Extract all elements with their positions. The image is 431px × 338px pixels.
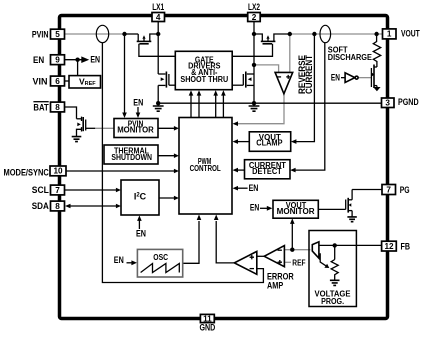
svg-text:2: 2	[252, 13, 257, 22]
svg-text:FB: FB	[401, 242, 411, 253]
svg-text:DISCHARGE: DISCHARGE	[328, 53, 373, 62]
svg-text:LX2: LX2	[248, 2, 260, 12]
svg-text:PG: PG	[400, 185, 410, 196]
svg-text:6: 6	[55, 77, 60, 86]
svg-text:I2C: I2C	[134, 192, 147, 202]
svg-text:GND: GND	[200, 322, 216, 333]
svg-text:MONITOR: MONITOR	[117, 126, 154, 135]
svg-text:CURRENT: CURRENT	[304, 55, 314, 94]
svg-text:EN: EN	[136, 229, 146, 239]
svg-text:5: 5	[55, 30, 60, 39]
svg-text:MODE/SYNC: MODE/SYNC	[4, 168, 49, 179]
svg-text:EN: EN	[249, 183, 259, 193]
svg-text:SCL: SCL	[32, 185, 49, 196]
svg-text:7: 7	[55, 186, 60, 195]
svg-text:DETECT: DETECT	[252, 167, 282, 176]
svg-text:12: 12	[384, 242, 394, 251]
svg-text:OSC: OSC	[153, 253, 168, 262]
svg-text:3: 3	[385, 99, 390, 108]
svg-text:AMP: AMP	[267, 280, 284, 291]
svg-text:LX1: LX1	[152, 2, 164, 12]
svg-text:8: 8	[55, 202, 60, 211]
svg-text:EN: EN	[331, 73, 340, 83]
svg-text:EN: EN	[133, 98, 143, 108]
svg-text:BAT: BAT	[33, 103, 48, 114]
svg-text:SHOOT THRU: SHOOT THRU	[180, 75, 228, 84]
svg-text:8: 8	[55, 103, 60, 112]
svg-text:CLAMP: CLAMP	[256, 139, 283, 148]
svg-text:9: 9	[55, 56, 60, 65]
svg-text:EN: EN	[114, 255, 124, 265]
svg-text:4: 4	[156, 13, 161, 22]
svg-text:7: 7	[386, 185, 391, 194]
svg-text:PROG.: PROG.	[321, 297, 344, 306]
svg-text:VIN: VIN	[33, 76, 48, 87]
svg-text:EN: EN	[90, 54, 100, 64]
svg-text:EN: EN	[250, 203, 259, 213]
svg-text:VOUT: VOUT	[401, 28, 420, 39]
svg-text:REF: REF	[292, 258, 305, 267]
svg-text:EN: EN	[33, 55, 44, 66]
svg-text:MONITOR: MONITOR	[277, 207, 315, 216]
svg-text:10: 10	[53, 167, 63, 176]
svg-text:SDA: SDA	[32, 201, 49, 212]
svg-text:CONTROL: CONTROL	[190, 164, 221, 173]
svg-text:1: 1	[387, 30, 392, 39]
svg-text:SHUTDOWN: SHUTDOWN	[111, 153, 152, 162]
svg-text:PVIN: PVIN	[32, 30, 49, 41]
svg-text:PGND: PGND	[398, 97, 419, 108]
